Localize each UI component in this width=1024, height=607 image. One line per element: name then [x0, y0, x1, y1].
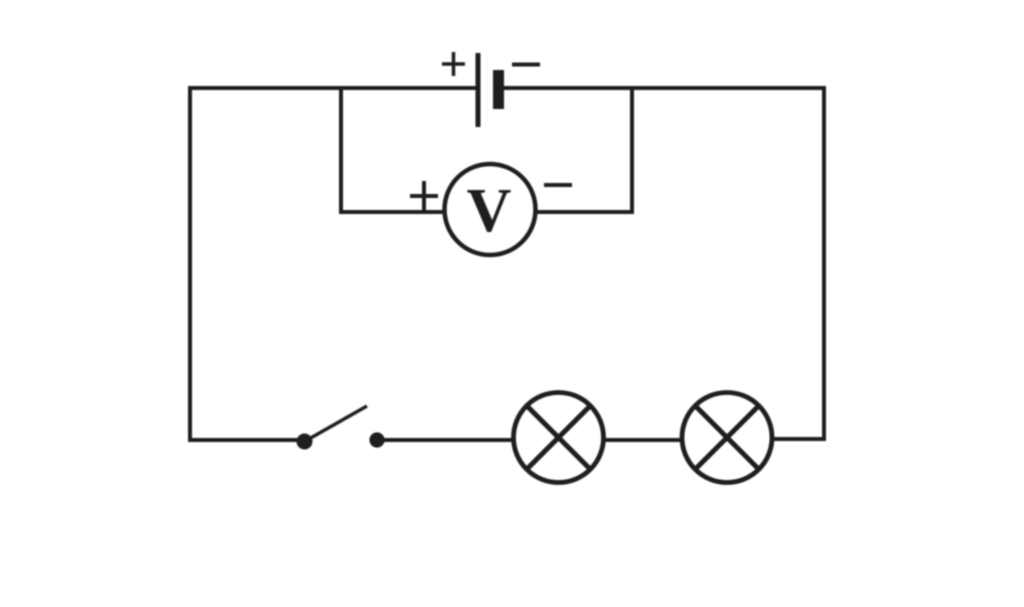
wire lamp L1 to lamp L2	[603, 438, 683, 442]
label battery -	[512, 63, 540, 67]
wire lamp L2 to right vertical	[771, 437, 826, 441]
wire left vertical	[188, 86, 192, 442]
label voltmeter -	[544, 183, 572, 187]
label voltmeter +	[410, 181, 438, 211]
wire voltmeter right lead	[533, 210, 634, 214]
wire right vertical	[822, 86, 826, 441]
voltmeter U1	[445, 164, 536, 255]
wire inner-right vertical (voltmeter branch)	[630, 88, 634, 214]
wire bottom-left to switch	[188, 438, 299, 442]
wire switch to lamp L1	[382, 438, 514, 442]
battery B1	[478, 53, 499, 127]
wire top-right segment	[504, 86, 826, 90]
wire top-left segment	[188, 86, 477, 90]
lamp L1	[514, 393, 604, 483]
svg-text:V: V	[467, 177, 512, 245]
wire inner-left vertical (voltmeter branch)	[339, 88, 343, 214]
lamp L2	[682, 393, 772, 483]
wire voltmeter left lead	[339, 210, 447, 214]
label battery +	[442, 52, 465, 76]
switch S1	[297, 406, 385, 450]
